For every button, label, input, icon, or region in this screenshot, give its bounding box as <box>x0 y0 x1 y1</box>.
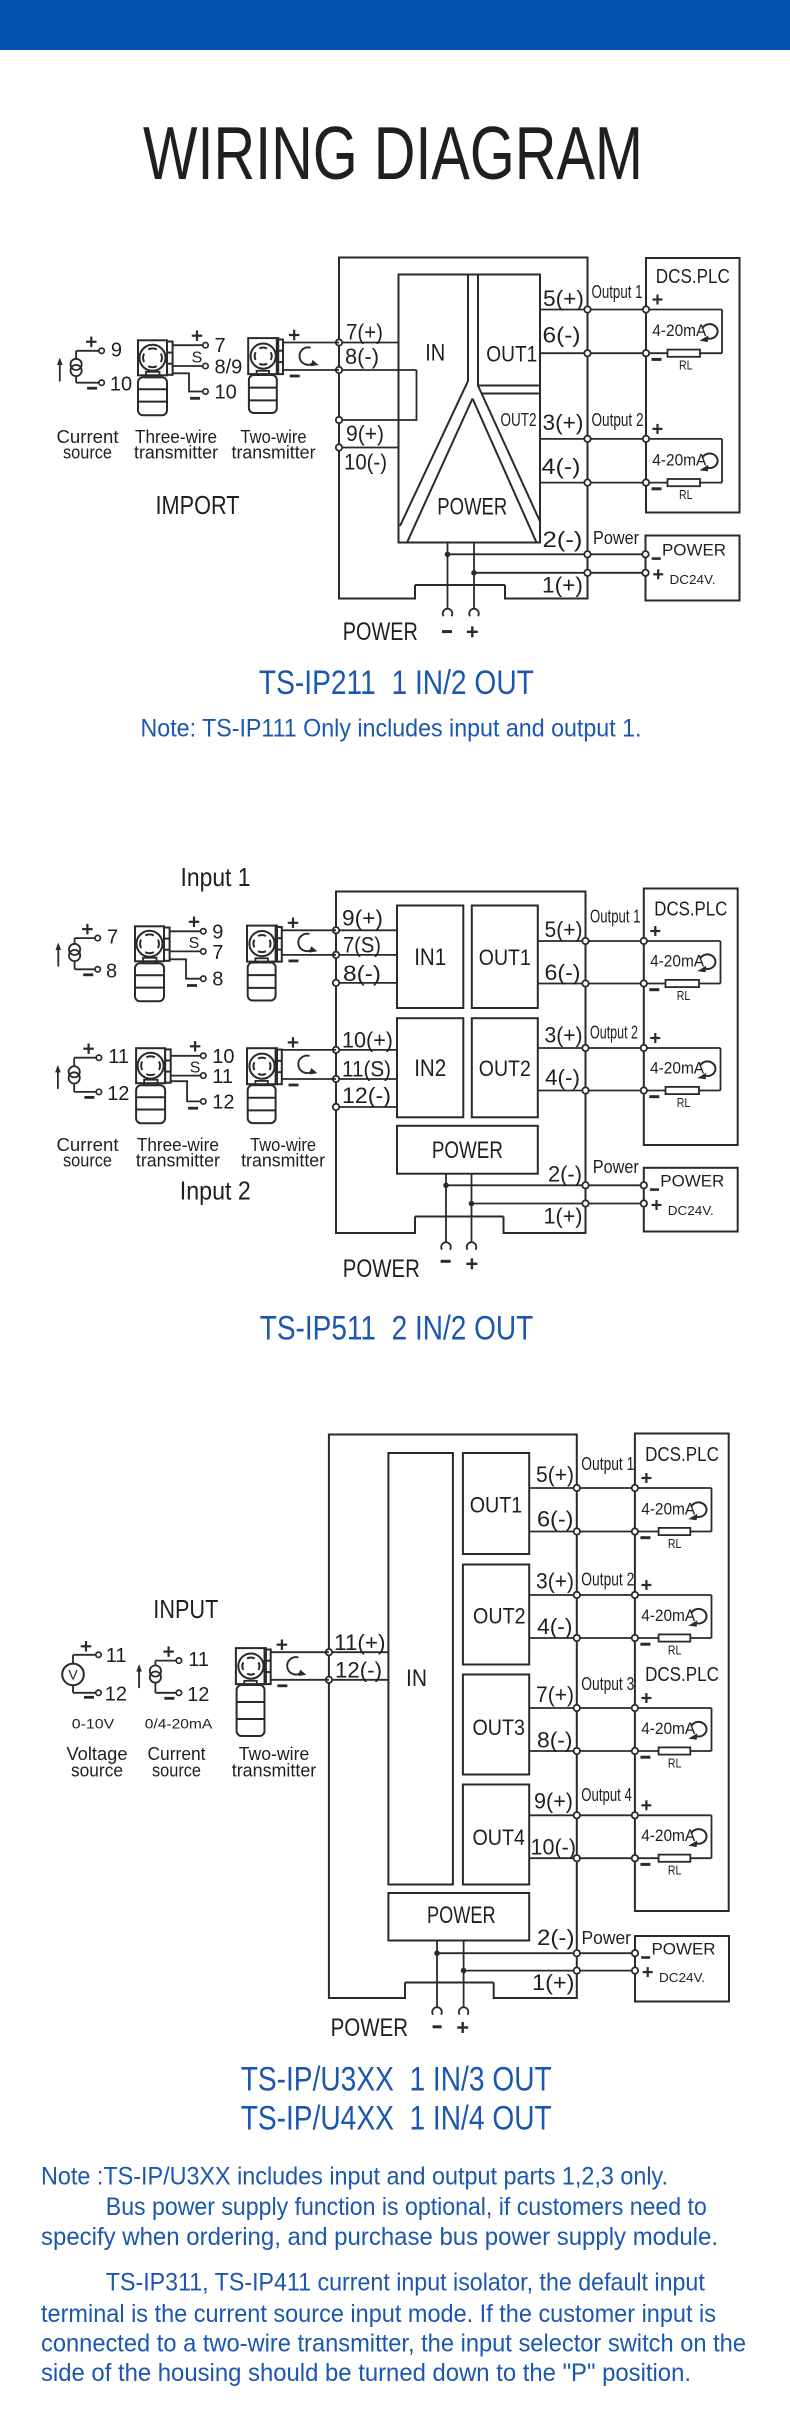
wire 6(-) output <box>540 352 646 354</box>
svg-text:source: source <box>152 1761 201 1781</box>
svg-text:8(-): 8(-) <box>345 344 379 369</box>
svg-text:3(+): 3(+) <box>543 410 584 435</box>
wire power positive drop <box>473 543 475 609</box>
terminal 4(-) on module <box>584 479 590 485</box>
junction dot 2(-) <box>443 1183 449 1189</box>
svg-text:DCS.PLC: DCS.PLC <box>656 266 730 288</box>
terminal 2(-) on module <box>584 551 590 557</box>
svg-text:1(+): 1(+) <box>532 1970 575 1995</box>
module U1 inner block <box>399 275 541 543</box>
svg-text:POWER: POWER <box>343 1255 420 1283</box>
load loop output 2 (4-20mA, RL) <box>643 424 722 502</box>
svg-text:5(+): 5(+) <box>536 1462 574 1487</box>
terminal 3(+) on module U3 <box>574 1592 580 1598</box>
svg-text:10: 10 <box>212 1046 234 1068</box>
terminal right y=1090.5 on module U2 <box>582 1087 588 1093</box>
svg-text:12(-): 12(-) <box>335 1658 382 1683</box>
svg-text:4(-): 4(-) <box>545 1065 580 1090</box>
svg-text:OUT2: OUT2 <box>473 1604 526 1629</box>
module U3 OUT1 box <box>463 1453 529 1554</box>
svg-text:IN1: IN1 <box>414 944 446 971</box>
svg-text:transmitter: transmitter <box>232 1761 317 1781</box>
terminal right y=941 on module U2 <box>582 938 588 944</box>
wire 3(+) output <box>529 1594 635 1596</box>
svg-text:RL: RL <box>668 1864 682 1878</box>
terminal 5(+) on module U3 <box>574 1485 580 1491</box>
terminal left y=1079 on module U2 <box>333 1076 339 1082</box>
svg-text:4-20mA: 4-20mA <box>641 1826 696 1845</box>
module U3 OUT4 box <box>463 1785 529 1885</box>
sign plus bottom power <box>466 1263 477 1265</box>
two-wire transmitter TX6 (input 2) <box>247 1037 336 1123</box>
terminal 10(-) on module U3 <box>574 1855 580 1861</box>
sign minus bottom power <box>433 2025 442 2028</box>
sign minus bottom power <box>442 630 452 633</box>
terminal 6(-) on module <box>584 350 590 356</box>
module U1 TS-IP211 outer outline <box>339 258 588 599</box>
svg-text:TS-IP511 2 IN/2 OUT: TS-IP511 2 IN/2 OUT <box>260 1310 534 1348</box>
svg-text:POWER: POWER <box>437 494 507 521</box>
wire 10(+) input <box>336 1049 397 1051</box>
svg-text:11(S): 11(S) <box>342 1057 391 1082</box>
wire 6(-) output <box>529 1531 635 1533</box>
terminal right y=983.5 on module U2 <box>582 980 588 986</box>
svg-text:RL: RL <box>668 1643 682 1657</box>
voltage source VS1 <box>62 1641 127 1705</box>
svg-text:4-20mA: 4-20mA <box>652 451 707 470</box>
power terminal positive <box>467 1242 477 1250</box>
svg-text:12: 12 <box>105 1683 127 1705</box>
svg-text:4-20mA: 4-20mA <box>641 1719 696 1738</box>
svg-text:8: 8 <box>106 960 117 982</box>
page header blue band <box>0 0 790 50</box>
wire 4(-) output <box>529 1637 635 1639</box>
DCS.PLC box <box>644 889 738 1146</box>
wire 10(-) input <box>339 447 399 449</box>
svg-text:4-20mA: 4-20mA <box>650 1059 705 1078</box>
svg-text:OUT1: OUT1 <box>470 1493 523 1518</box>
DCS.PLC box <box>646 258 740 513</box>
power terminal positive <box>459 2007 469 2015</box>
svg-text:DCS.PLC: DCS.PLC <box>645 1664 719 1686</box>
svg-text:DCS.PLC: DCS.PLC <box>654 899 727 921</box>
two-wire transmitter TX4 (input 1) <box>247 918 336 1001</box>
svg-text:8/9: 8/9 <box>215 357 243 379</box>
svg-text:IN2: IN2 <box>414 1055 446 1082</box>
svg-text:source: source <box>63 443 112 463</box>
wire 7(+) output <box>529 1707 635 1709</box>
module U3 POWER box <box>388 1893 529 1941</box>
svg-text:specify when ordering, and pur: specify when ordering, and purchase bus … <box>41 2223 718 2251</box>
svg-text:Note :TS-IP/U3XX includes inpu: Note :TS-IP/U3XX includes input and outp… <box>41 2163 668 2191</box>
wire 6(-) output <box>538 983 644 985</box>
terminal 3(+) on module <box>584 436 590 442</box>
svg-text:TS-IP/U4XX 1 IN/4 OUT: TS-IP/U4XX 1 IN/4 OUT <box>241 2100 552 2138</box>
svg-text:8(-): 8(-) <box>537 1728 573 1753</box>
svg-text:DCS.PLC: DCS.PLC <box>645 1444 719 1466</box>
module U1 power isolation triangle <box>407 399 473 543</box>
svg-text:8: 8 <box>212 969 223 991</box>
load loop output 1 (4-20mA, RL) <box>632 1473 712 1551</box>
svg-text:source: source <box>63 1151 112 1171</box>
svg-text:4(-): 4(-) <box>542 454 581 479</box>
terminal right y=1203.5 on module U2 <box>582 1200 588 1206</box>
svg-text:Power: Power <box>593 528 639 548</box>
terminal right y=1048 on module U2 <box>582 1045 588 1051</box>
current source CS3 (input 2) <box>55 1043 129 1104</box>
wire 8(-) input <box>336 982 397 984</box>
svg-text:RL: RL <box>668 1537 682 1551</box>
svg-text:RL: RL <box>679 488 693 502</box>
svg-text:V: V <box>68 1666 78 1682</box>
svg-text:11: 11 <box>106 1645 127 1667</box>
wire 7(S) input <box>336 954 397 956</box>
terminal left y=930.3 on module U2 <box>333 927 339 933</box>
svg-text:TS-IP311, TS-IP411 current inp: TS-IP311, TS-IP411 current input isolato… <box>106 2269 705 2297</box>
svg-text:9: 9 <box>111 339 122 361</box>
junction dot 1(+) <box>471 570 477 576</box>
terminal left y=1049.9 on module U2 <box>333 1047 339 1053</box>
svg-text:source: source <box>71 1761 123 1781</box>
svg-text:9(+): 9(+) <box>534 1789 573 1814</box>
junction dot 2(-) <box>434 1950 440 1956</box>
svg-text:7(+): 7(+) <box>346 320 383 345</box>
module U2 POWER box <box>397 1126 538 1174</box>
svg-text:OUT2: OUT2 <box>479 1056 531 1081</box>
svg-text:12: 12 <box>107 1083 129 1105</box>
svg-text:2(-): 2(-) <box>548 1162 582 1187</box>
wire power positive drop <box>471 1174 473 1242</box>
terminal 4(-) on module U3 <box>574 1635 580 1641</box>
junction dot 2(-) <box>445 552 451 558</box>
svg-text:7(+): 7(+) <box>536 1682 574 1707</box>
svg-text:0/4-20mA: 0/4-20mA <box>145 1716 213 1732</box>
wire 11(S) input <box>336 1078 397 1080</box>
terminal left y=1679.8 on module U3 <box>326 1677 332 1683</box>
DCS.PLC box (outputs 1-4) <box>635 1434 729 1912</box>
svg-text:7: 7 <box>215 335 226 357</box>
terminal left y=1652.2 on module U3 <box>326 1649 332 1655</box>
svg-text:3(+): 3(+) <box>545 1023 583 1048</box>
terminal 5(+) on module <box>584 306 590 312</box>
svg-text:POWER: POWER <box>331 2014 409 2042</box>
svg-text:S: S <box>192 350 203 367</box>
svg-text:1(+): 1(+) <box>542 573 583 598</box>
svg-text:10(+): 10(+) <box>342 1028 393 1053</box>
wire 5(+) output <box>529 1487 635 1489</box>
sign plus bottom power <box>467 631 478 633</box>
terminal left y=982.9 on module U2 <box>333 980 339 986</box>
svg-text:transmitter: transmitter <box>136 1151 220 1171</box>
svg-text:RL: RL <box>677 989 691 1003</box>
svg-text:4-20mA: 4-20mA <box>650 952 705 971</box>
terminal right y=1185.3 on module U2 <box>582 1182 588 1188</box>
svg-text:11: 11 <box>188 1649 209 1671</box>
svg-text:DC24V.: DC24V. <box>659 1970 705 1985</box>
svg-text:Power: Power <box>593 1157 639 1177</box>
svg-text:connected to a two-wire transm: connected to a two-wire transmitter, the… <box>41 2330 746 2358</box>
svg-text:10: 10 <box>215 382 237 404</box>
wire 9(+) input <box>336 929 397 931</box>
svg-text:6(-): 6(-) <box>543 323 581 348</box>
module U2 OUT2 box <box>472 1018 538 1117</box>
wire 9(+) output <box>529 1814 635 1816</box>
module U2 OUT1 box <box>472 906 538 1009</box>
svg-text:TS-IP/U3XX 1 IN/3 OUT: TS-IP/U3XX 1 IN/3 OUT <box>241 2061 552 2099</box>
junction dot 1(+) <box>469 1201 475 1207</box>
two-wire transmitter TX7 <box>236 1639 329 1736</box>
svg-text:IMPORT: IMPORT <box>156 490 240 520</box>
svg-text:7: 7 <box>107 927 118 949</box>
wire 2(-) power <box>446 1184 644 1186</box>
svg-text:OUT1: OUT1 <box>479 945 531 970</box>
svg-text:terminal is the current source: terminal is the current source input mod… <box>41 2300 716 2328</box>
svg-text:INPUT: INPUT <box>153 1594 218 1624</box>
svg-text:TS-IP211 1 IN/2 OUT: TS-IP211 1 IN/2 OUT <box>259 664 534 702</box>
wire 5(+) output <box>538 940 644 942</box>
module U2 TS-IP511 outer outline <box>336 892 586 1234</box>
svg-text:11: 11 <box>108 1046 129 1068</box>
svg-text:2(-): 2(-) <box>537 1925 575 1950</box>
two-wire transmitter TX2 <box>248 330 339 413</box>
wire 8(-) output <box>529 1750 635 1752</box>
terminal 6(-) on module U3 <box>574 1528 580 1534</box>
svg-text:side of the housing should be: side of the housing should be turned dow… <box>41 2359 691 2387</box>
wire power negative drop <box>436 1941 438 2008</box>
svg-text:DC24V.: DC24V. <box>668 1203 714 1218</box>
svg-text:12: 12 <box>212 1091 234 1113</box>
svg-text:Power: Power <box>582 1928 632 1948</box>
svg-text:Output 2: Output 2 <box>592 410 644 430</box>
svg-text:S: S <box>190 1059 201 1076</box>
svg-text:RL: RL <box>677 1096 691 1110</box>
terminal 9(+) on module U3 <box>574 1812 580 1818</box>
svg-text:5(+): 5(+) <box>545 917 583 942</box>
wire 4(-) output <box>538 1090 644 1092</box>
POWER DC24V box <box>642 536 739 601</box>
wire 8(-) input <box>339 369 417 371</box>
svg-text:OUT4: OUT4 <box>472 1825 525 1850</box>
svg-text:9: 9 <box>212 921 223 943</box>
svg-text:4-20mA: 4-20mA <box>641 1606 696 1625</box>
svg-text:0-10V: 0-10V <box>72 1716 115 1732</box>
module U2 IN1 box <box>397 906 463 1009</box>
svg-text:Output 2: Output 2 <box>581 1570 634 1590</box>
svg-text:8(-): 8(-) <box>343 961 381 986</box>
svg-text:Output 4: Output 4 <box>581 1785 632 1805</box>
svg-text:RL: RL <box>668 1756 682 1770</box>
load loop output 4 (4-20mA, RL) <box>632 1800 712 1877</box>
wire power negative drop <box>445 1174 447 1242</box>
POWER DC24V box <box>641 1168 738 1232</box>
wire 1(+) power <box>472 1203 644 1205</box>
module U3 outer outline <box>329 1435 577 1999</box>
load loop output 2 (4-20mA, RL) <box>632 1580 712 1657</box>
svg-text:transmitter: transmitter <box>241 1151 325 1171</box>
wire 7(+) input <box>339 342 399 344</box>
load loop output 1 (4-20mA, RL) <box>641 926 721 1003</box>
sign plus bottom power <box>457 2026 468 2028</box>
svg-text:OUT3: OUT3 <box>472 1715 525 1740</box>
wire 1(+) power <box>474 572 646 574</box>
svg-text:4-20mA: 4-20mA <box>641 1500 696 1519</box>
svg-text:9(+): 9(+) <box>346 421 384 446</box>
svg-text:9(+): 9(+) <box>342 906 383 931</box>
terminal 8(-) on module <box>336 367 342 373</box>
terminal left y=954.9 on module U2 <box>333 952 339 958</box>
module U1 isolation channel right <box>478 275 540 522</box>
module U2 IN2 box <box>397 1018 463 1117</box>
module U1 OUT1/OUT2 divider <box>478 385 540 387</box>
sign minus bottom power <box>441 1260 451 1263</box>
terminal 1(+) on module U3 <box>574 1967 580 1973</box>
wire 2(-) power <box>437 1952 635 1954</box>
svg-text:6(-): 6(-) <box>537 1507 574 1532</box>
current source CS1 <box>57 337 132 396</box>
svg-text:Output 1: Output 1 <box>581 1454 634 1474</box>
svg-text:Output 1: Output 1 <box>590 906 641 926</box>
wire 12(-) input <box>336 1106 397 1108</box>
three-wire transmitter TX1 <box>138 330 242 415</box>
power terminal positive <box>469 609 479 617</box>
svg-text:DC24V.: DC24V. <box>670 572 716 587</box>
module U3 OUT2 box <box>463 1565 529 1665</box>
wire 11(+) input <box>329 1651 389 1653</box>
terminal left y=1107 on module U2 <box>333 1104 339 1110</box>
svg-text:10(-): 10(-) <box>531 1835 577 1860</box>
svg-text:POWER: POWER <box>432 1137 503 1164</box>
wire 3(+) output <box>538 1047 644 1049</box>
load loop output 3 (4-20mA, RL) <box>632 1693 712 1770</box>
wire power positive drop <box>463 1941 465 2008</box>
svg-text:10(-): 10(-) <box>344 450 387 475</box>
power terminal negative <box>443 609 453 617</box>
svg-text:Note: TS-IP111 Only includes i: Note: TS-IP111 Only includes input and o… <box>141 715 642 743</box>
svg-text:Output 1: Output 1 <box>592 282 643 302</box>
svg-text:POWER: POWER <box>660 1171 724 1190</box>
svg-text:transmitter: transmitter <box>232 443 316 463</box>
wire 3(+) output <box>540 438 646 440</box>
load loop output 1 (4-20mA, RL) <box>643 295 722 373</box>
svg-text:Input 2: Input 2 <box>180 1176 251 1206</box>
svg-text:10: 10 <box>110 374 132 396</box>
svg-text:Output 2: Output 2 <box>590 1023 638 1043</box>
svg-text:POWER: POWER <box>427 1902 496 1929</box>
wire 12(-) input <box>329 1679 389 1681</box>
svg-text:Bus power supply function is o: Bus power supply function is optional, i… <box>106 2193 707 2221</box>
svg-text:OUT2: OUT2 <box>501 410 537 430</box>
svg-text:POWER: POWER <box>652 1939 716 1958</box>
module U3 OUT3 box <box>463 1675 529 1775</box>
three-wire transmitter TX3 (input 1) <box>135 917 223 1002</box>
current source CS2 (input 1) <box>56 924 119 982</box>
wire 5(+) output <box>540 309 646 311</box>
svg-text:4-20mA: 4-20mA <box>652 321 707 340</box>
wire 9(+) input with selector box <box>339 370 417 420</box>
svg-text:4(-): 4(-) <box>537 1614 573 1639</box>
svg-text:IN: IN <box>425 340 445 367</box>
wire 4(-) output <box>540 482 646 484</box>
POWER DC24V box <box>632 1936 729 2002</box>
svg-text:11(+): 11(+) <box>334 1630 386 1655</box>
terminal 7(+) on module U3 <box>574 1705 580 1711</box>
wire 1(+) power <box>464 1970 635 1972</box>
svg-text:S: S <box>189 935 200 952</box>
power terminal negative <box>432 2007 442 2015</box>
svg-text:POWER: POWER <box>662 540 726 559</box>
svg-text:transmitter: transmitter <box>134 443 218 463</box>
wire 2(-) power <box>448 553 646 555</box>
svg-text:12: 12 <box>187 1684 209 1706</box>
terminal 8(-) on module U3 <box>574 1748 580 1754</box>
terminal 1(+) on module <box>584 570 590 576</box>
terminal 7(+) on module <box>336 339 342 345</box>
terminal 9(+) on module <box>336 417 342 423</box>
svg-text:2(-): 2(-) <box>543 527 583 552</box>
module U1 isolation channel left <box>400 275 468 527</box>
svg-text:6(-): 6(-) <box>545 960 581 985</box>
svg-text:1(+): 1(+) <box>544 1204 583 1229</box>
load loop output 2 (4-20mA, RL) <box>641 1033 721 1110</box>
three-wire transmitter TX5 (input 2) <box>136 1041 234 1123</box>
current source CS4 <box>136 1646 209 1705</box>
svg-text:RL: RL <box>679 359 693 373</box>
svg-text:7: 7 <box>212 942 223 964</box>
power terminal negative <box>441 1242 451 1250</box>
svg-text:12(-): 12(-) <box>342 1083 391 1108</box>
svg-text:Input 1: Input 1 <box>181 862 251 892</box>
wire 10(-) output <box>529 1857 635 1859</box>
svg-text:3(+): 3(+) <box>536 1569 574 1594</box>
svg-text:WIRING DIAGRAM: WIRING DIAGRAM <box>143 111 643 195</box>
svg-text:7(S): 7(S) <box>343 933 381 958</box>
module U3 IN box <box>388 1453 453 1885</box>
svg-text:Output 3: Output 3 <box>581 1674 634 1694</box>
junction dot 1(+) <box>461 1968 467 1974</box>
wire power negative drop <box>447 543 449 609</box>
svg-text:11: 11 <box>212 1066 233 1088</box>
svg-text:POWER: POWER <box>343 618 418 646</box>
svg-text:5(+): 5(+) <box>543 286 584 311</box>
terminal 2(-) on module U3 <box>574 1950 580 1956</box>
svg-text:IN: IN <box>406 1665 427 1692</box>
terminal 10(-) on module <box>336 444 342 450</box>
svg-text:OUT1: OUT1 <box>486 342 537 367</box>
